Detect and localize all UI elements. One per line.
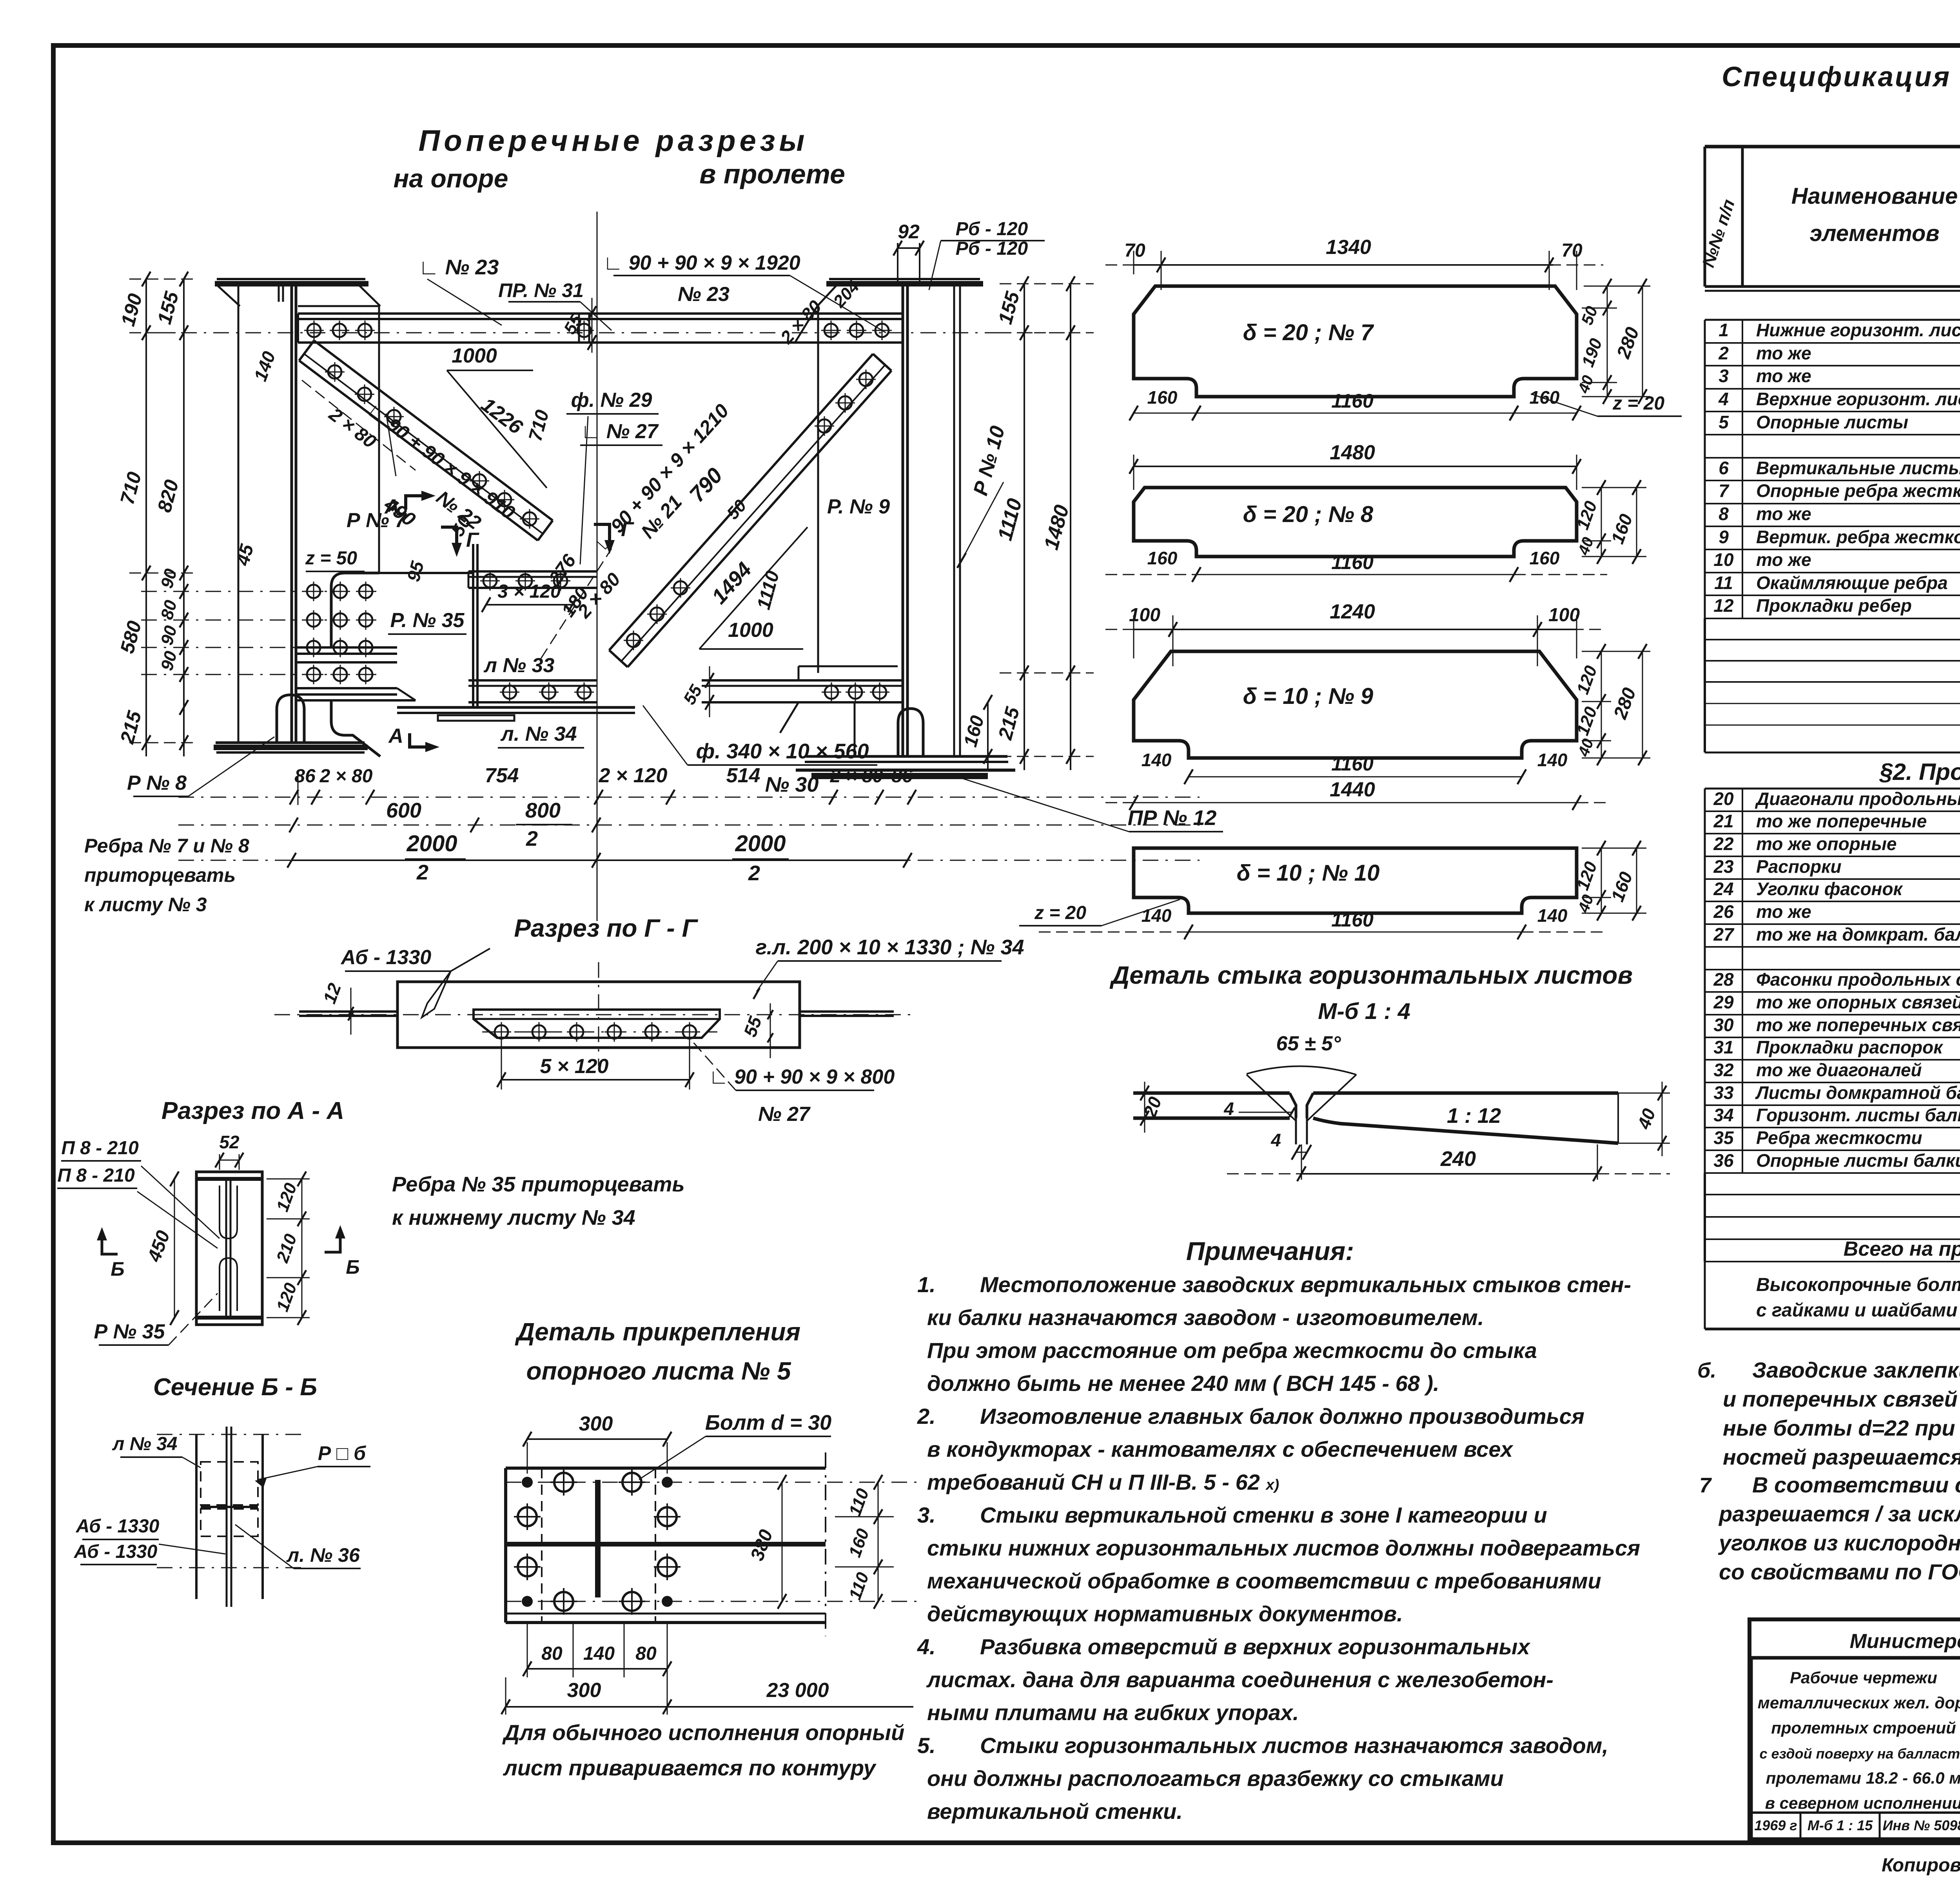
svg-text:δ = 10 ; № 9: δ = 10 ; № 9 — [1243, 684, 1373, 709]
svg-text:то же: то же — [1756, 504, 1811, 524]
table row 34 — [1705, 1127, 1960, 1128]
svg-text:ные болты d=22 при этом з: ные болты d=22 при этом зачистку контакт… — [1723, 1416, 1960, 1440]
svg-text:Диагонали продольные: Диагонали продольные — [1755, 789, 1960, 809]
svg-text:160: 160 — [1530, 548, 1560, 568]
plate l34 horizontal — [397, 706, 635, 709]
svg-text:2 × 80: 2 × 80 — [319, 766, 373, 787]
svg-text:№ 23: № 23 — [678, 283, 730, 306]
svg-text:Прокладки распорок: Прокладки распорок — [1756, 1037, 1944, 1057]
table row 28 — [1705, 991, 1960, 993]
rivet — [473, 474, 486, 488]
svg-text:Изготовление главных балок: Изготовление главных балок должно произв… — [980, 1404, 1584, 1429]
svg-text:они должны распологаться вр: они должны распологаться вразбежку со ст… — [927, 1766, 1504, 1791]
table row 26 — [1705, 923, 1960, 925]
plate detail N10 — [1134, 848, 1577, 913]
Б-Б dashed plates — [201, 1462, 258, 1505]
svg-text:уголков из кислородно конве: уголков из кислородно конверторной стали… — [1718, 1530, 1960, 1555]
svg-text:Верхние горизонт. листы: Верхние горизонт. листы — [1756, 389, 1960, 409]
svg-text:механической обработке в со: механической обработке в соответствии с … — [927, 1568, 1601, 1593]
table row 29 — [1705, 1014, 1960, 1015]
svg-text:М-б 1 : 15: М-б 1 : 15 — [1808, 1817, 1873, 1833]
svg-text:и поперечных связей могут: и поперечных связей могут быть заменены … — [1723, 1387, 1960, 1411]
svg-text:1340: 1340 — [1326, 236, 1371, 259]
svg-text:Рб - 120: Рб - 120 — [956, 238, 1028, 259]
svg-text:Фасонки продольных связей: Фасонки продольных связей — [1756, 969, 1960, 990]
dim 5x120 — [501, 1038, 502, 1090]
svg-text:Деталь прикрепления: Деталь прикрепления — [515, 1318, 800, 1346]
svg-text:вертикальной стенки.: вертикальной стенки. — [927, 1799, 1183, 1824]
svg-text:δ = 20 ; № 7: δ = 20 ; № 7 — [1243, 320, 1374, 345]
svg-text:№ 27: № 27 — [758, 1103, 811, 1126]
rivet — [824, 324, 838, 337]
table row 9 — [1705, 549, 1960, 550]
svg-text:со свойствами по ГОСТ 6713: со свойствами по ГОСТ 6713 - 53 . — [1719, 1559, 1960, 1584]
svg-text:Р № 7: Р № 7 — [347, 509, 407, 532]
svg-text:элементов: элементов — [1809, 221, 1939, 246]
svg-text:Р □ б: Р □ б — [318, 1442, 367, 1464]
svg-text:Разрез по Г - Г: Разрез по Г - Г — [514, 914, 698, 942]
symmetry axis centerline — [597, 212, 598, 921]
svg-text:то же опорных связей: то же опорных связей — [1756, 992, 1960, 1012]
weld detail left plate — [1133, 1091, 1290, 1095]
rivet — [328, 365, 341, 379]
svg-text:2 × 80: 2 × 80 — [830, 766, 883, 787]
Г-Г centerline — [274, 1014, 913, 1015]
svg-text:27: 27 — [1713, 924, 1735, 945]
svg-text:6: 6 — [1719, 458, 1729, 478]
table row 12 — [1705, 618, 1960, 619]
svg-text:10: 10 — [1713, 549, 1734, 570]
svg-text:Поперечные разрезы: Поперечные разрезы — [419, 124, 809, 158]
svg-text:ными плитами на гибких упор: ными плитами на гибких упорах. — [927, 1700, 1299, 1725]
rivet — [873, 685, 886, 699]
svg-text:Спецификация металла на про: Спецификация металла на пролетное строен… — [1722, 62, 1960, 92]
svg-text:52: 52 — [219, 1132, 240, 1152]
title block outer — [1749, 1619, 1960, 1839]
table row 8 — [1705, 526, 1960, 527]
svg-text:80: 80 — [635, 1643, 657, 1664]
table row 4 — [1705, 411, 1960, 412]
table row 2 — [1705, 365, 1960, 366]
rivet — [519, 574, 532, 587]
svg-text:в пролете: в пролете — [699, 159, 845, 189]
rivet — [523, 512, 536, 526]
bearing sheet outline — [506, 1467, 826, 1470]
svg-text:2: 2 — [526, 827, 538, 850]
svg-text:стыки нижних горизонтальных: стыки нижних горизонтальных листов должн… — [927, 1536, 1640, 1560]
rivet — [850, 324, 863, 337]
svg-text:Окаймляющие ребра: Окаймляющие ребра — [1756, 573, 1948, 593]
svg-text:то же поперечные: то же поперечные — [1756, 811, 1927, 831]
table row 31 — [1705, 1059, 1960, 1061]
svg-text:11: 11 — [1714, 573, 1733, 593]
svg-text:140: 140 — [1537, 750, 1568, 770]
Б-Б verticals — [195, 1434, 198, 1599]
rivet — [859, 373, 873, 386]
svg-text:21: 21 — [1713, 811, 1733, 831]
table row 35 — [1705, 1149, 1960, 1151]
left girder top flange — [217, 278, 365, 280]
top dims 92 — [897, 243, 898, 284]
svg-text:г.л. 200 × 10 × 1330 ; № 34: г.л. 200 × 10 × 1330 ; № 34 — [755, 936, 1024, 959]
svg-text:1480: 1480 — [1330, 441, 1375, 464]
svg-text:Рб - 120: Рб - 120 — [956, 219, 1028, 239]
svg-text:1.: 1. — [917, 1272, 936, 1297]
svg-text:86: 86 — [294, 766, 316, 787]
svg-text:600: 600 — [386, 799, 421, 822]
svg-text:то же: то же — [1756, 901, 1811, 922]
svg-text:то же: то же — [1756, 343, 1811, 363]
svg-text:в кондукторах - кантователях: в кондукторах - кантователях с обеспечен… — [927, 1437, 1514, 1461]
left girder vertical plate edge — [238, 285, 240, 743]
table row 10 — [1705, 572, 1960, 573]
triangle dim 1494/1110/1000 diag21 — [699, 648, 803, 650]
svg-text:1160: 1160 — [1331, 551, 1374, 573]
diagonal brace 22 — [299, 361, 538, 540]
svg-text:л. № 34: л. № 34 — [500, 723, 577, 745]
plate cut edge — [825, 1452, 826, 1636]
bottom bearing strip ПР12 — [796, 769, 1015, 772]
z50 cutout contour — [331, 573, 379, 647]
svg-text:140: 140 — [1142, 750, 1172, 770]
right girder web — [902, 284, 904, 756]
svg-text:Нижние горизонт. листы: Нижние горизонт. листы — [1756, 320, 1960, 340]
svg-text:л. № 36: л. № 36 — [286, 1544, 360, 1566]
svg-text:1000: 1000 — [452, 344, 497, 367]
svg-text:Ребра № 7 и № 8: Ребра № 7 и № 8 — [84, 835, 249, 857]
section marker A bottom — [410, 733, 425, 747]
svg-text:Наименование: Наименование — [1791, 183, 1958, 209]
svg-text:65 ± 5°: 65 ± 5° — [1276, 1032, 1341, 1055]
centerline top strip — [149, 332, 1078, 334]
spec table outer — [1705, 145, 1960, 149]
rivet — [818, 419, 831, 433]
svg-text:§2. Продольные и поперечны: §2. Продольные и поперечные связи — [1879, 759, 1960, 785]
svg-text:пролетами 18.2 - 66.0 м: пролетами 18.2 - 66.0 м — [1766, 1769, 1960, 1787]
rivet — [650, 607, 664, 621]
table row 36 — [1705, 1172, 1960, 1174]
svg-text:2: 2 — [1718, 343, 1729, 363]
svg-text:2 × 120: 2 × 120 — [599, 764, 668, 787]
svg-text:z = 50: z = 50 — [305, 548, 357, 569]
svg-text:z = 20: z = 20 — [1612, 393, 1664, 414]
bolts — [554, 1473, 573, 1492]
rivet — [495, 1025, 508, 1039]
svg-text:300: 300 — [579, 1412, 613, 1435]
svg-text:5 × 120: 5 × 120 — [540, 1055, 609, 1078]
svg-text:к нижнему листу № 34: к нижнему листу № 34 — [392, 1206, 635, 1229]
svg-text:12: 12 — [1713, 595, 1734, 616]
rivet — [387, 410, 401, 423]
svg-text:1440: 1440 — [1330, 778, 1375, 801]
svg-text:Ребра жесткости: Ребра жесткости — [1756, 1128, 1922, 1148]
svg-text:Ребра № 35 приторцевать: Ребра № 35 приторцевать — [392, 1173, 685, 1196]
plate detail N9 — [1134, 651, 1577, 758]
left dim chain outer — [145, 279, 147, 756]
rivet — [838, 396, 852, 410]
rivet — [358, 324, 372, 337]
svg-text:требований СН и П III-В. 5 -: требований СН и П III-В. 5 - 62 х) — [927, 1470, 1279, 1494]
svg-text:Министерство транспортного: Министерство транспортного строительства… — [1850, 1630, 1960, 1653]
table row 22 — [1705, 856, 1960, 857]
right girder plate P10 — [953, 285, 955, 756]
svg-text:Аб - 1330: Аб - 1330 — [340, 946, 431, 969]
table row 20 — [1705, 810, 1960, 812]
mid horizontal strip — [468, 570, 597, 573]
svg-text:Разбивка отверстий в верхни: Разбивка отверстий в верхних горизонталь… — [980, 1634, 1531, 1659]
svg-text:29: 29 — [1713, 992, 1734, 1012]
svg-text:Листы домкратной балки: Листы домкратной балки — [1755, 1082, 1960, 1103]
svg-text:к листу № 3: к листу № 3 — [84, 894, 207, 916]
svg-text:Вертикальные листы: Вертикальные листы — [1756, 458, 1960, 478]
svg-text:Прокладки ребер: Прокладки ребер — [1756, 595, 1912, 616]
top bracing strip — [298, 312, 903, 315]
svg-text:приторцевать: приторцевать — [84, 864, 236, 886]
dashed edges — [541, 1468, 543, 1623]
table row 32 — [1705, 1082, 1960, 1083]
svg-text:с гайками и шайбами: с гайками и шайбами — [1756, 1300, 1957, 1321]
svg-text:30: 30 — [1713, 1015, 1734, 1035]
rivet — [570, 1025, 583, 1039]
svg-text:Вертик. ребра жесткости: Вертик. ребра жесткости — [1756, 527, 1960, 547]
rivet — [358, 388, 371, 401]
rivet — [674, 581, 687, 595]
Г-Г inner angle with rivets — [474, 1010, 720, 1038]
left splice bars — [296, 646, 397, 649]
right dim chains — [1024, 284, 1025, 770]
svg-text:33: 33 — [1713, 1082, 1734, 1103]
svg-text:ф. № 29: ф. № 29 — [571, 389, 652, 412]
svg-text:36: 36 — [1713, 1150, 1734, 1171]
rivet — [483, 574, 497, 587]
svg-text:7: 7 — [1719, 480, 1730, 501]
svg-text:160: 160 — [1530, 387, 1560, 408]
table row 1 — [1705, 342, 1960, 344]
svg-text:опорного листа № 5: опорного листа № 5 — [526, 1357, 791, 1385]
svg-text:5: 5 — [1719, 412, 1729, 432]
svg-text:Распорки: Распорки — [1756, 856, 1842, 877]
svg-text:32: 32 — [1713, 1060, 1734, 1080]
svg-text:1 : 12: 1 : 12 — [1447, 1104, 1501, 1128]
svg-text:ф. 340 × 10 × 560: ф. 340 × 10 × 560 — [696, 740, 869, 763]
Б markers — [102, 1240, 118, 1254]
svg-text:Аб - 1330: Аб - 1330 — [74, 1541, 158, 1562]
svg-text:z = 20: z = 20 — [1034, 903, 1086, 923]
rivet — [875, 324, 889, 337]
svg-text:35: 35 — [1713, 1128, 1734, 1148]
rivet — [542, 685, 555, 699]
table row 7 — [1705, 503, 1960, 504]
svg-text:При этом расстояние от реб: При этом расстояние от ребра жесткости д… — [927, 1338, 1537, 1363]
svg-text:Опорные листы балки: Опорные листы балки — [1756, 1150, 1960, 1171]
bottom dim chain 1 — [298, 774, 299, 805]
svg-text:Р № 8: Р № 8 — [127, 772, 187, 794]
svg-text:то же опорные: то же опорные — [1756, 834, 1896, 854]
gusset above lower strip right — [799, 665, 898, 667]
svg-text:листах. дана для варианта: листах. дана для варианта соединения с ж… — [926, 1667, 1553, 1692]
svg-text:то же: то же — [1756, 366, 1811, 386]
svg-text:86: 86 — [891, 766, 913, 787]
section marker A top — [406, 496, 421, 509]
svg-text:с ездой поверху на балласте: с ездой поверху на балласте — [1759, 1746, 1960, 1762]
table row 6 — [1705, 480, 1960, 481]
svg-text:П 8 - 210: П 8 - 210 — [61, 1138, 139, 1159]
svg-text:ПР. № 31: ПР. № 31 — [498, 279, 584, 301]
svg-text:то же: то же — [1756, 549, 1811, 570]
bottom dim chain 3 — [178, 860, 1200, 861]
section marker Г right — [594, 524, 610, 540]
svg-text:2: 2 — [748, 861, 760, 885]
svg-text:В соответствии с распоряжен: В соответствии с распоряжением № Л-322 /… — [1752, 1472, 1960, 1497]
svg-text:1160: 1160 — [1331, 753, 1374, 775]
svg-text:Рабочие чертежи: Рабочие чертежи — [1790, 1668, 1937, 1687]
svg-text:160: 160 — [1147, 387, 1178, 408]
svg-text:1160: 1160 — [1331, 390, 1374, 412]
svg-text:то же на домкрат. балке: то же на домкрат. балке — [1756, 924, 1960, 945]
svg-text:ки балки назначаются заводо: ки балки назначаются заводом - изготовит… — [927, 1305, 1484, 1330]
empty gap row — [1704, 682, 1706, 752]
svg-text:3.: 3. — [917, 1503, 936, 1527]
rivet — [577, 685, 591, 699]
§1 band — [1705, 290, 1960, 292]
ПР31 splice on top strip — [578, 314, 580, 343]
svg-text:1000: 1000 — [728, 619, 773, 642]
svg-text:в северном исполнении: в северном исполнении — [1765, 1794, 1960, 1812]
table row 30 — [1705, 1037, 1960, 1038]
svg-text:70: 70 — [1124, 240, 1145, 261]
svg-text:4: 4 — [1270, 1130, 1281, 1150]
svg-text:31: 31 — [1713, 1037, 1733, 1057]
svg-text:δ = 10 ; № 10: δ = 10 ; № 10 — [1237, 860, 1380, 886]
svg-text:4: 4 — [1223, 1099, 1234, 1119]
svg-text:514: 514 — [726, 764, 760, 787]
svg-text:№ 30: № 30 — [765, 773, 819, 796]
svg-text:70: 70 — [1561, 240, 1583, 261]
Г-Г vertical centerline — [598, 962, 599, 1066]
right girder top flange — [829, 278, 980, 280]
svg-text:М-б 1 : 4: М-б 1 : 4 — [1318, 999, 1410, 1024]
svg-text:Горизонт. листы балки: Горизонт. листы балки — [1756, 1105, 1960, 1125]
svg-text:пролетных строений: пролетных строений — [1771, 1719, 1956, 1737]
weld right plate tapered — [1313, 1091, 1618, 1095]
center slot — [595, 1480, 601, 1597]
svg-text:3: 3 — [1719, 366, 1729, 386]
svg-text:Сечение Б - Б: Сечение Б - Б — [153, 1374, 317, 1401]
svg-text:Стыки вертикальной стенки в: Стыки вертикальной стенки в зоне I катег… — [980, 1503, 1547, 1527]
rivet — [645, 1025, 659, 1039]
table row 5 — [1705, 434, 1960, 435]
svg-text:Опорные листы: Опорные листы — [1756, 412, 1908, 432]
svg-text:лист приваривается по конту: лист приваривается по контуру — [503, 1755, 877, 1780]
bearing pin right — [898, 709, 923, 756]
svg-text:4.: 4. — [917, 1634, 936, 1659]
header verticals — [1704, 147, 1706, 286]
rivet — [608, 1025, 621, 1039]
svg-text:9: 9 — [1719, 527, 1729, 547]
svg-text:34: 34 — [1713, 1105, 1733, 1125]
table row 21 — [1705, 833, 1960, 834]
table row 23 — [1705, 878, 1960, 880]
rivet — [683, 1025, 696, 1039]
svg-text:л № 34: л № 34 — [112, 1434, 178, 1454]
rivet — [532, 1025, 546, 1039]
svg-text:2.: 2. — [917, 1404, 936, 1429]
svg-text:Копировал: Копировал — [1882, 1855, 1960, 1876]
Г-Г through plate — [299, 1010, 397, 1013]
rivet — [333, 324, 346, 337]
svg-text:Всего на пролетное строение: Всего на пролетное строение по §1 и § 2 — [1844, 1238, 1960, 1260]
table row 3 — [1705, 388, 1960, 390]
rivet — [498, 493, 511, 506]
svg-text:4: 4 — [1718, 389, 1729, 409]
svg-text:на опоре: на опоре — [394, 164, 508, 193]
rivet — [307, 324, 321, 337]
bottom dim chain 2 — [178, 825, 1200, 826]
svg-text:5.: 5. — [917, 1733, 936, 1758]
svg-text:300: 300 — [567, 1679, 601, 1702]
left girder bottom flange — [216, 742, 365, 744]
table row 11 — [1705, 595, 1960, 596]
svg-text:28: 28 — [1713, 969, 1734, 990]
right girder bottom flange — [806, 755, 1007, 758]
svg-text:Разрез по А - А: Разрез по А - А — [162, 1097, 344, 1124]
svg-text:Высокопрочные болты: Высокопрочные болты — [1756, 1275, 1960, 1295]
svg-text:100: 100 — [1548, 605, 1580, 625]
svg-text:∟ № 27: ∟ № 27 — [581, 420, 659, 443]
svg-text:Заводские заклепки d=23 при: Заводские заклепки d=23 прикрепления гор… — [1752, 1358, 1960, 1382]
svg-text:Уголки фасонок: Уголки фасонок — [1756, 879, 1904, 899]
svg-text:240: 240 — [1440, 1147, 1476, 1171]
table row 27 — [1705, 946, 1960, 948]
svg-text:Р № 35: Р № 35 — [94, 1320, 165, 1343]
svg-text:∟ 90 + 90 × 9 × 800: ∟ 90 + 90 × 9 × 800 — [709, 1066, 895, 1088]
left chamfer top — [298, 305, 379, 307]
section marker Г left — [441, 527, 457, 543]
svg-text:2: 2 — [416, 861, 428, 884]
svg-text:92: 92 — [898, 221, 920, 243]
table row subtotal — [1705, 457, 1960, 459]
svg-text:Для обычного исполнения опо: Для обычного исполнения опорный — [502, 1720, 904, 1745]
Г-Г body rect — [397, 982, 800, 1048]
svg-text:8: 8 — [1719, 504, 1729, 524]
svg-text:24: 24 — [1713, 879, 1733, 899]
svg-text:∟ 90 + 90 × 9 × 1920: ∟ 90 + 90 × 9 × 1920 — [603, 252, 800, 274]
svg-text:80: 80 — [541, 1643, 563, 1664]
svg-text:должно быть не менее 240 м: должно быть не менее 240 мм ( ВСН 145 - … — [927, 1371, 1439, 1396]
svg-text:754: 754 — [485, 764, 519, 787]
svg-text:∟ № 23: ∟ № 23 — [419, 256, 499, 279]
svg-text:140: 140 — [583, 1643, 615, 1664]
plate detail N8 — [1134, 488, 1577, 557]
svg-text:23 000: 23 000 — [766, 1679, 829, 1702]
plate l33 vertical — [472, 544, 474, 709]
svg-text:Б: Б — [111, 1258, 124, 1280]
diagonal brace 21 — [628, 371, 891, 667]
svg-text:22: 22 — [1713, 834, 1734, 854]
svg-text:Р. № 35: Р. № 35 — [390, 609, 465, 632]
svg-text:Б: Б — [346, 1256, 359, 1278]
rivet — [503, 685, 516, 699]
rivet — [825, 685, 838, 699]
svg-text:2000: 2000 — [406, 831, 457, 856]
svg-text:160: 160 — [1147, 548, 1178, 568]
svg-text:действующих нормативных доку: действующих нормативных документов. — [927, 1601, 1403, 1626]
bearing pin left — [277, 695, 304, 743]
svg-text:20: 20 — [1713, 789, 1734, 809]
svg-text:3 × 120: 3 × 120 — [497, 581, 561, 602]
svg-text:1160: 1160 — [1331, 909, 1374, 931]
svg-text:Деталь стыка горизонтальных: Деталь стыка горизонтальных листов — [1109, 961, 1633, 989]
